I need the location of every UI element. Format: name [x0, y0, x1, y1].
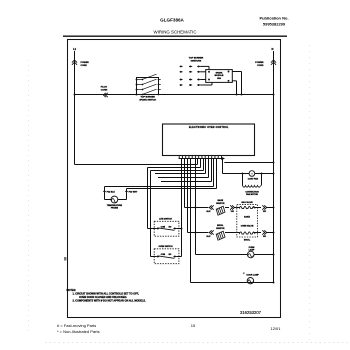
- svg-text:TOP BURNER: TOP BURNER: [189, 58, 204, 60]
- svg-text:CONN: CONN: [101, 89, 108, 91]
- svg-text:GAS VALVE: GAS VALVE: [241, 201, 253, 204]
- svg-text:BROIL: BROIL: [244, 240, 251, 242]
- svg-text:IGNITORS: IGNITORS: [191, 60, 202, 62]
- svg-text:* = Non-Illustrated Parts: * = Non-Illustrated Parts: [57, 329, 100, 334]
- svg-text:5995382299: 5995382299: [263, 22, 286, 27]
- svg-text:VIO: VIO: [231, 211, 235, 213]
- svg-text:COM: COM: [161, 254, 166, 256]
- svg-text:POWER: POWER: [81, 62, 90, 64]
- svg-text:1. CIRCUIT SHOWN WITH ALL CON: 1. CIRCUIT SHOWN WITH ALL CONTROLS SET T…: [73, 292, 140, 295]
- svg-text:LAMP: LAMP: [249, 249, 255, 252]
- svg-text:OVEN SWITCH: OVEN SWITCH: [158, 246, 173, 248]
- svg-text:BLK: BLK: [207, 236, 212, 238]
- svg-text:P13 WHT: P13 WHT: [129, 191, 138, 193]
- svg-text:VIO: VIO: [263, 236, 267, 238]
- svg-text:POWER: POWER: [255, 62, 264, 64]
- svg-text:CORD: CORD: [257, 65, 264, 67]
- svg-text:CORD: CORD: [81, 65, 88, 67]
- svg-text:TEMPERATURE: TEMPERATURE: [107, 204, 123, 207]
- svg-text:OVEN VALVE: OVEN VALVE: [241, 224, 254, 227]
- svg-text:CONV FAN: CONV FAN: [248, 177, 259, 180]
- svg-text:TOP BURNER: TOP BURNER: [141, 97, 156, 99]
- svg-text:12/01: 12/01: [270, 326, 281, 331]
- svg-text:VIO: VIO: [263, 211, 267, 213]
- svg-text:OVEN DOOR CLOSED AND UNLOCKED.: OVEN DOOR CLOSED AND UNLOCKED.: [79, 296, 127, 299]
- svg-text:FAN MOTOR: FAN MOTOR: [246, 193, 259, 196]
- svg-text:N: N: [272, 47, 274, 51]
- svg-text:P12 BLK: P12 BLK: [107, 191, 116, 193]
- svg-text:WIRING SCHEMATIC: WIRING SCHEMATIC: [153, 30, 196, 35]
- svg-text:ELECTRONIC OVEN CONTROL: ELECTRONIC OVEN CONTROL: [189, 127, 229, 129]
- svg-text:SPARK: SPARK: [216, 72, 223, 75]
- svg-text:GLGF386A: GLGF386A: [160, 18, 184, 23]
- svg-text:Publication No.: Publication No.: [259, 16, 288, 21]
- svg-text:BLK: BLK: [207, 211, 212, 213]
- svg-text:IGNITOR: IGNITOR: [216, 228, 225, 230]
- svg-text:SPARK SWITCH: SPARK SWITCH: [139, 98, 156, 101]
- svg-text:M: M: [251, 174, 253, 176]
- svg-text:DOOR LAMP: DOOR LAMP: [247, 274, 260, 277]
- svg-text:IGNITOR: IGNITOR: [216, 203, 225, 205]
- svg-text:BAKE: BAKE: [217, 199, 223, 202]
- svg-text:PLUG: PLUG: [101, 87, 107, 89]
- svg-text:LITE SWITCH: LITE SWITCH: [159, 218, 172, 220]
- svg-text:# = Fast-moving Parts: # = Fast-moving Parts: [57, 323, 96, 328]
- svg-text:PROBE: PROBE: [111, 208, 119, 210]
- svg-text:NOTES:: NOTES:: [67, 289, 77, 292]
- svg-text:BAKE: BAKE: [244, 216, 250, 219]
- svg-text:IGN: IGN: [217, 78, 221, 80]
- svg-text:COM: COM: [161, 226, 166, 228]
- svg-text:15: 15: [191, 323, 196, 328]
- svg-text:316253207: 316253207: [240, 310, 262, 315]
- svg-text:2. COMPONENTS WITH # DO NOT: 2. COMPONENTS WITH # DO NOT APPEAR ON AL…: [73, 300, 147, 303]
